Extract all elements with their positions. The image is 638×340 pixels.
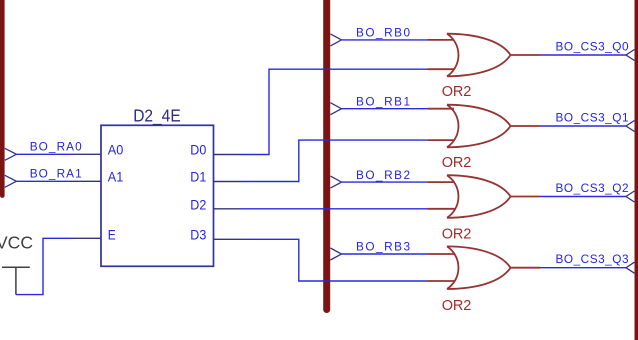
input port BO_RA1 <box>5 175 17 187</box>
wire D1 to OR gate U3 <box>242 140 428 181</box>
OR gate U2 <box>428 34 541 77</box>
svg-text:D0: D0 <box>190 142 206 158</box>
input port BO_RB2 <box>330 176 341 188</box>
OR gate U4 <box>428 175 541 218</box>
svg-text:VCC: VCC <box>0 233 33 253</box>
wire BO_RB3 <box>342 253 428 255</box>
svg-text:BO_CS3_Q1: BO_CS3_Q1 <box>556 110 629 124</box>
input port BO_RB1 <box>330 103 341 115</box>
right I/O terminal bar <box>635 0 638 340</box>
input port BO_RB0 <box>330 34 341 46</box>
decoder U1 D2_4E body <box>101 125 214 266</box>
middle bus bar <box>323 0 330 313</box>
VCC symbol <box>2 267 30 294</box>
svg-text:D2: D2 <box>190 196 206 212</box>
output port BO_CS3_Q2 <box>626 191 634 202</box>
svg-text:BO_CS3_Q3: BO_CS3_Q3 <box>556 252 629 266</box>
svg-text:OR2: OR2 <box>442 155 472 171</box>
svg-text:A0: A0 <box>108 142 124 158</box>
svg-text:D3: D3 <box>190 227 206 243</box>
wire VCC to E <box>16 238 73 294</box>
svg-text:E: E <box>108 227 116 243</box>
svg-text:OR2: OR2 <box>442 298 472 314</box>
wire D3 to OR gate U5 <box>242 239 428 281</box>
OR gate U5 <box>428 246 541 289</box>
svg-text:BO_CS3_Q0: BO_CS3_Q0 <box>556 39 629 53</box>
wire BO_CS3_Q1 <box>541 125 627 127</box>
wire BO_RA1 <box>16 180 72 182</box>
pin stub A1 <box>73 180 102 182</box>
output port BO_CS3_Q1 <box>626 121 634 132</box>
input port BO_RB3 <box>330 248 341 260</box>
wire BO_RA0 <box>16 153 72 155</box>
svg-text:D1: D1 <box>190 169 206 185</box>
wire D0 to OR gate U2 <box>242 69 428 154</box>
svg-text:OR2: OR2 <box>442 84 472 100</box>
input port BO_RA0 <box>5 148 17 160</box>
pin stub A0 <box>73 153 102 155</box>
pin stub D2 <box>214 208 242 210</box>
wire BO_RB2 <box>342 181 428 183</box>
OR gate U3 <box>428 105 541 148</box>
output port BO_CS3_Q3 <box>626 262 634 273</box>
pin stub E <box>73 237 102 239</box>
wire BO_RB1 <box>342 108 428 110</box>
output port BO_CS3_Q0 <box>626 50 634 61</box>
svg-text:D2_4E: D2_4E <box>133 105 181 126</box>
svg-text:OR2: OR2 <box>442 227 472 243</box>
svg-text:BO_RA1: BO_RA1 <box>30 166 82 180</box>
wire D2 to OR gate U4 <box>242 208 428 210</box>
svg-text:BO_CS3_Q2: BO_CS3_Q2 <box>556 181 629 195</box>
left I/O terminal bar <box>0 0 5 198</box>
wire BO_CS3_Q3 <box>541 267 627 269</box>
pin stub D1 <box>214 181 242 183</box>
wire BO_CS3_Q2 <box>541 196 627 198</box>
pin stub D0 <box>214 154 242 156</box>
wire BO_RB0 <box>342 39 428 41</box>
svg-text:A1: A1 <box>108 169 124 185</box>
svg-text:BO_RA0: BO_RA0 <box>30 139 82 153</box>
wire BO_CS3_Q0 <box>541 54 627 56</box>
pin stub D3 <box>214 238 242 240</box>
